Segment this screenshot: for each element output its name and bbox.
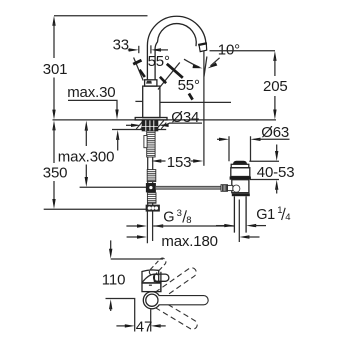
- 10 deg arc left w arrow: [184, 59, 200, 67]
- escutcheon plate: [135, 118, 167, 121]
- top view: spout arm dashed down: [156, 300, 199, 331]
- deck hatch right: [157, 121, 167, 129]
- pop-up rod horizontal: [155, 186, 221, 189]
- top view: body inner circle: [146, 294, 158, 306]
- countertop line: [53, 119, 277, 121]
- dimension G3/8: [126, 224, 234, 227]
- svg-text:33: 33: [113, 36, 129, 53]
- dimension max.180: [127, 233, 260, 250]
- dimension 153: [151, 154, 203, 171]
- lever arc arrowhead to horizontal: [189, 94, 193, 100]
- dimension Ø63: [217, 124, 290, 141]
- hose bottom reference line: [44, 208, 148, 210]
- svg-text:Ø34: Ø34: [171, 109, 199, 126]
- threaded shank: [147, 131, 155, 157]
- svg-text:153: 153: [167, 154, 192, 171]
- lever left tick: [135, 100, 142, 102]
- svg-text:max.30: max.30: [67, 84, 115, 101]
- 10 deg tilted line: [204, 57, 207, 77]
- 10 deg arc right w arrow: [211, 58, 220, 66]
- dimension 205: [263, 51, 288, 120]
- top view: 110 bottom extension with corner: [106, 299, 135, 332]
- drain body upper: [231, 168, 250, 177]
- spout arc (high C spout): [147, 16, 206, 80]
- top view: body outer circle: [143, 292, 160, 309]
- pipe gap above fitting: [148, 182, 153, 184]
- svg-text:G1: G1: [256, 207, 275, 223]
- label G1 1/4: [256, 205, 290, 223]
- lever thick dash right: [167, 64, 183, 78]
- supply pipe lower: [147, 211, 152, 243]
- svg-text:205: 205: [263, 78, 288, 95]
- hose corrugation lower: [147, 193, 156, 203]
- dimension max.30 bracket: [67, 84, 119, 151]
- lever ray left: [134, 58, 144, 81]
- top view: lever root shade: [154, 275, 162, 282]
- faucet body: [143, 86, 160, 118]
- svg-text:55°: 55°: [148, 53, 170, 70]
- svg-text:301: 301: [43, 61, 68, 78]
- svg-text:G: G: [163, 210, 174, 226]
- dimension 110: [102, 240, 125, 311]
- top view: body front curve: [143, 274, 159, 282]
- top view: spout arm dashed up: [155, 266, 198, 300]
- shank left tab: [144, 136, 147, 148]
- drain max.180 extension line: [238, 200, 240, 243]
- dimension G1 1/4: [216, 224, 266, 227]
- top view: body right edge: [160, 272, 162, 292]
- hose end connector: [146, 203, 160, 211]
- svg-text:10°: 10°: [218, 41, 240, 58]
- drain body lower: [232, 180, 249, 193]
- lever open stub right: [160, 77, 166, 83]
- lever root mark: [146, 81, 152, 84]
- dimension 301: [43, 16, 68, 120]
- dimension 40-53: [249, 145, 294, 194]
- label G3/8: [163, 208, 191, 226]
- svg-text:47: 47: [136, 319, 152, 336]
- top view: lever handle: [154, 274, 168, 281]
- drain o-ring upper: [230, 177, 251, 180]
- drain plug flange: [231, 164, 249, 167]
- deck hatch left: [136, 121, 146, 130]
- top view: spout arm solid: [159, 296, 208, 305]
- dimension 33: [113, 36, 168, 53]
- dimension 350: [43, 120, 68, 209]
- ball joint circle: [233, 185, 240, 192]
- aerator tip: [199, 43, 207, 51]
- svg-text:40-53: 40-53: [257, 164, 295, 181]
- deck underside line: [112, 129, 166, 131]
- outlet top reference line: [210, 50, 276, 52]
- drain plug dome: [233, 161, 247, 165]
- spout top reference line: [54, 15, 148, 17]
- top view: base block: [142, 283, 161, 292]
- svg-text:max.180: max.180: [161, 233, 217, 250]
- svg-text:4: 4: [285, 212, 290, 223]
- max.300 bottom reference line: [80, 186, 147, 188]
- top view: dashed lever swung: [148, 257, 167, 277]
- rod fitting at pipe: [146, 184, 155, 192]
- top view: 110 top extension line: [111, 258, 164, 260]
- dimension max.300: [58, 121, 114, 187]
- supply pipe upper: [148, 157, 153, 170]
- svg-text:350: 350: [43, 165, 68, 182]
- svg-text:1: 1: [277, 205, 282, 216]
- drain Ø63 extension lines: [229, 136, 251, 161]
- drain tailpipe: [234, 196, 246, 232]
- svg-text:110: 110: [102, 272, 125, 289]
- svg-text:3: 3: [177, 208, 182, 219]
- top view: body block: [142, 270, 159, 283]
- faucet neck cap: [145, 80, 157, 86]
- hose corrugation upper: [147, 170, 156, 182]
- lever open stub left: [140, 70, 145, 77]
- outlet vertical reference line: [203, 51, 205, 166]
- mounting nut block: [142, 120, 158, 131]
- rod knurl: [221, 185, 228, 192]
- drain o-ring lower: [232, 193, 250, 196]
- svg-text:max.300: max.300: [58, 149, 114, 166]
- dimension Ø34 leader: [126, 109, 202, 127]
- rod connector: [228, 185, 233, 190]
- lever ray right: [158, 63, 180, 90]
- top view: base tick: [149, 284, 152, 286]
- dimension 47: [116, 319, 165, 336]
- svg-text:55°: 55°: [178, 77, 200, 94]
- lever arc arrowhead upper-left: [133, 60, 141, 64]
- svg-text:Ø63: Ø63: [261, 124, 289, 141]
- svg-text:8: 8: [186, 215, 191, 226]
- top view: 47 right extension line: [150, 309, 152, 331]
- lever horizontal reference line: [160, 101, 231, 103]
